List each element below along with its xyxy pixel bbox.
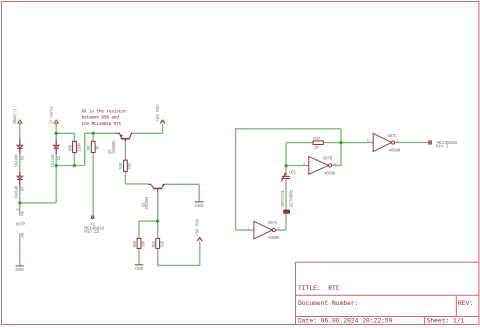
svg-text:UC1: UC1 — [289, 170, 296, 175]
svg-text:2N5086: 2N5086 — [113, 140, 117, 154]
svg-text:R22: R22 — [153, 240, 157, 247]
svg-text:3: 3 — [303, 163, 305, 167]
svg-text:U+ Varta: U+ Varta — [50, 106, 54, 124]
svg-text:GND: GND — [135, 266, 144, 272]
svg-text:U67C: U67C — [388, 134, 398, 139]
svg-text:2: 2 — [277, 227, 279, 231]
svg-text:6: 6 — [397, 140, 399, 144]
svg-text:10k: 10k — [142, 240, 147, 247]
svg-text:U67B: U67B — [323, 157, 333, 162]
svg-text:the MC146818 RTC: the MC146818 RTC — [82, 122, 122, 127]
svg-text:Document Number:: Document Number: — [298, 300, 358, 307]
svg-text:REV:: REV: — [458, 300, 473, 307]
svg-text:UBat(+): UBat(+) — [13, 109, 18, 124]
svg-text:RX is the resistor: RX is the resistor — [82, 110, 127, 115]
svg-text:Pin 22: Pin 22 — [84, 229, 99, 235]
svg-text:51R: 51R — [161, 240, 165, 247]
svg-text:Sheet: 1/1: Sheet: 1/1 — [427, 318, 465, 325]
svg-text:+5V PSU: +5V PSU — [155, 104, 161, 121]
svg-text:1N4148: 1N4148 — [16, 185, 20, 199]
svg-text:R40: R40 — [120, 162, 124, 169]
svg-text:10k: 10k — [128, 162, 133, 169]
svg-text:1: 1 — [247, 227, 249, 231]
svg-text:1M: 1M — [314, 146, 319, 151]
svg-text:U67A: U67A — [268, 221, 278, 226]
svg-text:5: 5 — [367, 140, 369, 144]
svg-text:R50: R50 — [70, 144, 74, 151]
svg-text:VDD: VDD — [21, 211, 25, 216]
svg-text:4069N: 4069N — [389, 149, 401, 154]
svg-text:1N4148: 1N4148 — [52, 154, 56, 168]
svg-text:Date: 06.06.2024 20:22:59: Date: 06.06.2024 20:22:59 — [298, 318, 393, 325]
svg-text:4069N: 4069N — [324, 171, 336, 176]
svg-text:150R: 150R — [78, 143, 82, 152]
svg-text:32768Hz: 32768Hz — [289, 189, 295, 207]
svg-text:GND: GND — [21, 232, 25, 237]
svg-text:R26: R26 — [134, 240, 138, 247]
svg-text:between R50 and: between R50 and — [82, 116, 120, 121]
svg-text:R47: R47 — [313, 137, 320, 142]
svg-text:2N3904: 2N3904 — [146, 196, 150, 210]
svg-text:GND: GND — [15, 267, 24, 273]
svg-text:4: 4 — [334, 163, 336, 167]
svg-text:4069N: 4069N — [268, 236, 280, 241]
svg-text:U67P: U67P — [16, 223, 26, 228]
svg-text:1N4148: 1N4148 — [16, 154, 20, 168]
svg-text:GND: GND — [195, 203, 204, 209]
svg-text:Pin 2: Pin 2 — [436, 144, 449, 150]
svg-text:TITLE: RTC: TITLE: RTC — [298, 285, 340, 292]
svg-text:CRYSTAL: CRYSTAL — [280, 189, 286, 207]
svg-text:+5V PSU: +5V PSU — [195, 219, 201, 236]
